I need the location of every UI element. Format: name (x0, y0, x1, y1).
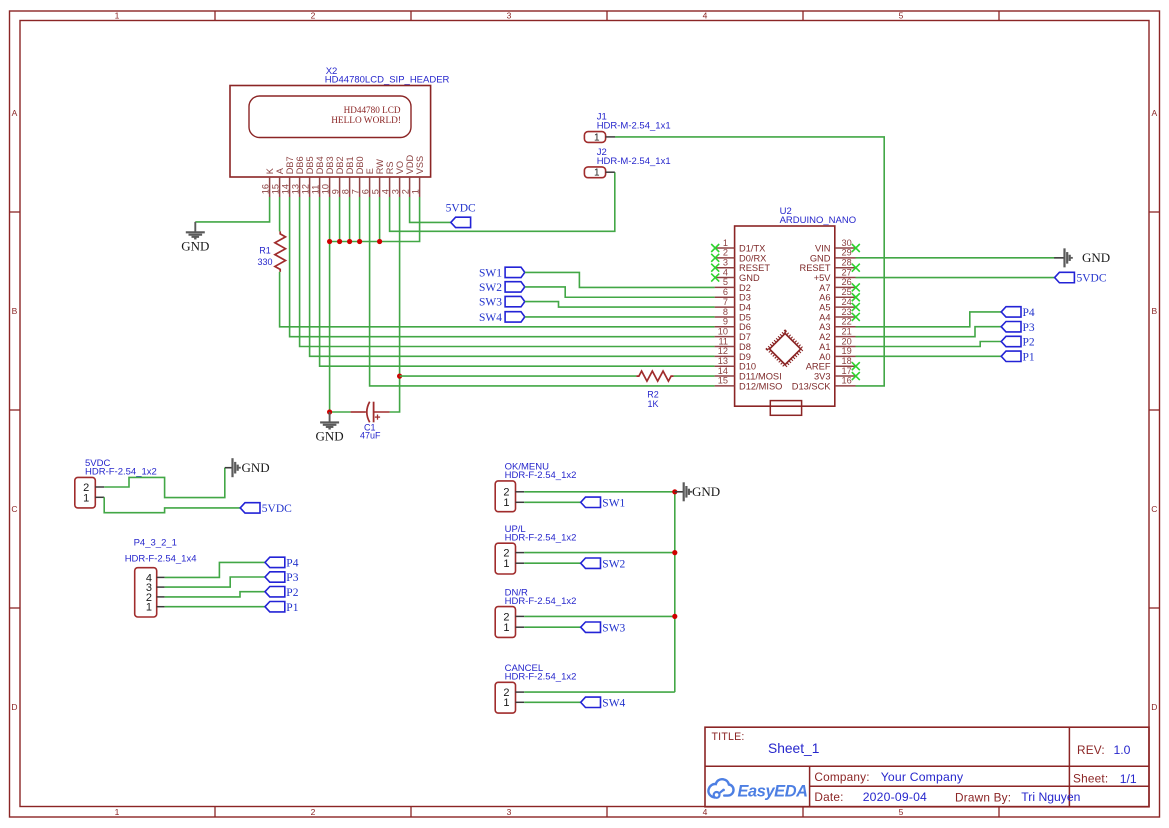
net flag SW2 (bottom) (581, 558, 626, 570)
svg-text:10: 10 (718, 326, 728, 336)
wire: CANCEL pin1 to SW4 flag (524, 701, 581, 703)
svg-text:A5: A5 (819, 303, 830, 313)
svg-text:GND: GND (810, 253, 831, 263)
svg-text:1.0: 1.0 (1114, 743, 1131, 757)
header P4_3_2_1 HDR-F-2.54_1x4 (125, 538, 197, 618)
ground symbol GND (switch rail) (675, 482, 720, 501)
wire: LCD pin11 DB4 to U2 D10 (320, 197, 715, 366)
svg-text:Date:: Date: (814, 790, 843, 804)
svg-text:GND: GND (692, 484, 720, 499)
wire: R2 to U2 D11/MOSI (674, 375, 715, 377)
svg-text:D1/TX: D1/TX (739, 243, 765, 253)
svg-text:Your Company: Your Company (881, 770, 964, 784)
wire: CANCEL pin2 to gnd rail (524, 691, 675, 693)
U2 no-connect marks (711, 244, 860, 380)
svg-text:14: 14 (280, 184, 290, 194)
wire: U2 A1 to P2 flag (856, 342, 1002, 347)
svg-text:2: 2 (311, 807, 316, 817)
svg-text:9: 9 (330, 189, 340, 194)
svg-text:DB5: DB5 (305, 156, 315, 174)
svg-text:13: 13 (290, 184, 300, 194)
net flag P4 (right) (1001, 307, 1035, 319)
svg-text:GND: GND (1082, 250, 1110, 265)
svg-text:AREF: AREF (806, 362, 831, 372)
svg-text:16: 16 (842, 376, 852, 386)
wire: 5VDC header pin1 to 5VDC flag (104, 497, 240, 512)
svg-text:A7: A7 (819, 283, 830, 293)
svg-text:2020-09-04: 2020-09-04 (863, 790, 927, 804)
svg-text:Company:: Company: (814, 770, 869, 784)
svg-text:D11/MOSI: D11/MOSI (739, 371, 782, 381)
wire: LCD pin3 VO down to node (399, 197, 401, 376)
svg-text:HDR-F-2.54_1x4: HDR-F-2.54_1x4 (125, 553, 197, 564)
wire: LCD pin5 RW to gnd bus (379, 197, 381, 242)
svg-text:RW: RW (375, 159, 385, 174)
wire: header pin4 to P4 flag (165, 562, 265, 577)
net flag P1 (bottom) (265, 602, 299, 614)
title block (705, 727, 1149, 807)
wire: LCD pin10 DB3 down to ground junction (329, 197, 331, 412)
svg-text:VDD: VDD (405, 154, 415, 174)
wire: header pin1 to P1 flag (165, 606, 265, 608)
label R2 1K (647, 390, 659, 409)
svg-text:1: 1 (503, 558, 509, 570)
svg-text:DB4: DB4 (315, 156, 325, 174)
wire: LCD pin6 E to U2 D12/MISO (370, 197, 715, 386)
wire: U2 A2 to P3 flag (856, 327, 1002, 337)
svg-text:16: 16 (260, 184, 270, 194)
svg-text:1: 1 (594, 168, 600, 179)
svg-text:21: 21 (842, 326, 852, 336)
svg-text:HDR-F-2.54_1x2: HDR-F-2.54_1x2 (505, 672, 577, 683)
resistor R1 (275, 231, 286, 272)
svg-text:RS: RS (385, 161, 395, 174)
wire: J1 to U2 D13/SCK (615, 137, 884, 386)
connector J2 HDR-M-2.54_1x1 (584, 147, 670, 179)
U2 chip glyph (768, 332, 803, 367)
net flag P2 (bottom) (265, 587, 299, 599)
svg-text:9: 9 (723, 317, 728, 327)
svg-text:D9: D9 (739, 352, 751, 362)
wire: SW2 to U2 D3 (525, 287, 715, 297)
svg-text:28: 28 (842, 258, 852, 268)
net flag P3 (right) (1001, 322, 1035, 334)
net flag P3 (bottom) (265, 572, 299, 584)
svg-text:47uF: 47uF (360, 431, 381, 441)
wire: VO node down to capacitor C1 (390, 376, 400, 412)
svg-text:REV:: REV: (1077, 743, 1105, 757)
svg-text:Tri Nguyen: Tri Nguyen (1021, 790, 1080, 804)
svg-text:23: 23 (842, 307, 852, 317)
net flag SW4 (input) (479, 312, 525, 324)
svg-text:4: 4 (723, 267, 728, 277)
svg-text:HDR-F-2.54_1x2: HDR-F-2.54_1x2 (505, 596, 577, 607)
net flag P2 (right) (1001, 336, 1035, 348)
wire: header pin2 to P2 flag (165, 592, 265, 597)
capacitor C1 47uF (351, 402, 390, 441)
wire: U2 GND pin29 to ground (856, 257, 1055, 259)
svg-text:SW3: SW3 (602, 622, 625, 634)
svg-text:30: 30 (842, 238, 852, 248)
svg-text:24: 24 (842, 297, 852, 307)
svg-text:EasyEDA: EasyEDA (738, 782, 808, 800)
svg-text:11: 11 (718, 336, 728, 346)
svg-text:P4: P4 (1023, 307, 1035, 319)
svg-text:A1: A1 (819, 342, 830, 352)
svg-text:SW4: SW4 (479, 312, 502, 324)
svg-text:P2: P2 (286, 587, 298, 599)
svg-text:D6: D6 (739, 322, 751, 332)
svg-text:DB6: DB6 (295, 156, 305, 174)
header 5VDC HDR-F-2.54_1x2 (75, 458, 157, 508)
wire: DN/R pin2 to gnd rail (524, 615, 675, 617)
svg-text:P3: P3 (1023, 322, 1035, 334)
svg-text:D8: D8 (739, 342, 751, 352)
svg-text:DB7: DB7 (285, 156, 295, 174)
svg-text:10: 10 (320, 184, 330, 194)
svg-text:SW1: SW1 (479, 268, 502, 280)
svg-text:13: 13 (718, 356, 728, 366)
svg-text:330: 330 (257, 257, 272, 267)
svg-text:DB1: DB1 (345, 156, 355, 174)
svg-text:VIN: VIN (815, 243, 831, 253)
ground symbol GND (bottom-left) (225, 458, 270, 477)
net flag SW2 (input) (479, 282, 525, 294)
svg-text:VSS: VSS (415, 156, 425, 174)
svg-text:4: 4 (380, 189, 390, 194)
wire: LCD pin16 K to GND (195, 197, 269, 222)
wire: 5VDC header pin2 to ground (104, 468, 225, 498)
wire: UP/L pin1 to SW2 flag (524, 562, 581, 564)
wire: U2 A0 to P1 flag (856, 355, 1002, 357)
power flag 5VDC (bottom-left) (240, 503, 292, 515)
svg-text:2: 2 (723, 248, 728, 258)
svg-text:B: B (12, 306, 18, 316)
power flag 5VDC (right) (1055, 272, 1107, 284)
svg-text:15: 15 (270, 184, 280, 194)
svg-text:A3: A3 (819, 322, 830, 332)
svg-text:5VDC: 5VDC (1077, 273, 1107, 285)
svg-text:R1: R1 (259, 246, 271, 256)
svg-text:1: 1 (503, 497, 509, 509)
svg-text:DB3: DB3 (325, 156, 335, 174)
svg-text:5VDC: 5VDC (262, 503, 292, 515)
MCU module U2 ARDUINO_NANO body (735, 206, 857, 406)
U2 left pins 1-15 (715, 238, 783, 391)
wire: U2 A3 to P4 flag (856, 312, 1002, 327)
svg-text:D5: D5 (739, 312, 751, 322)
wire: LCD pin15 A to resistor R1 (279, 197, 281, 231)
svg-text:RESET: RESET (800, 263, 831, 273)
svg-text:DB0: DB0 (355, 156, 365, 174)
junction dots on gnd bus (327, 239, 382, 244)
svg-text:A2: A2 (819, 332, 830, 342)
power flag 5VDC (near LCD) (446, 203, 476, 228)
X2 pins 16..1 with names K A DB7 DB6 DB5 DB4 DB3 DB2 DB1 DB0 E RW RS VO VDD VSS (260, 154, 425, 197)
svg-text:P4: P4 (286, 558, 298, 570)
wire: LCD pin9 DB2 to gnd bus (339, 197, 341, 242)
header CANCEL HDR-F-2.54_1x2 (495, 663, 576, 713)
wire: LCD pin12 DB5 to U2 D9 (310, 197, 715, 356)
wire: VO node to resistor R2 (400, 375, 637, 377)
svg-text:P4_3_2_1: P4_3_2_1 (134, 538, 177, 549)
svg-text:2: 2 (400, 189, 410, 194)
svg-text:26: 26 (842, 277, 852, 287)
svg-text:D2: D2 (739, 283, 751, 293)
svg-text:1: 1 (410, 189, 420, 194)
U2 right pins 30-16 (792, 238, 856, 391)
svg-text:1/1: 1/1 (1120, 772, 1137, 786)
svg-text:D: D (11, 702, 17, 712)
svg-text:7: 7 (350, 189, 360, 194)
svg-text:17: 17 (842, 366, 852, 376)
svg-text:HDR-M-2.54_1x1: HDR-M-2.54_1x1 (597, 156, 671, 167)
wire: LCD pin7 DB0 to gnd bus (359, 197, 361, 242)
svg-text:HD44780LCD_SIP_HEADER: HD44780LCD_SIP_HEADER (325, 75, 450, 86)
svg-text:SW2: SW2 (479, 282, 502, 294)
svg-text:3: 3 (507, 807, 512, 817)
net flag P1 (right) (1001, 351, 1035, 363)
svg-text:GND: GND (242, 460, 270, 475)
net flag P4 (bottom) (265, 557, 299, 569)
svg-text:3V3: 3V3 (814, 371, 831, 381)
svg-text:HD44780 LCD: HD44780 LCD (344, 105, 401, 115)
svg-text:P3: P3 (286, 572, 298, 584)
svg-text:K: K (265, 167, 275, 174)
wire: LCD pin13 DB6 to U2 D8 (300, 197, 715, 347)
svg-text:6: 6 (723, 287, 728, 297)
svg-text:D13/SCK: D13/SCK (792, 381, 832, 391)
svg-text:20: 20 (842, 336, 852, 346)
wire: gnd bus and LCD pin1 VSS (330, 197, 420, 242)
svg-text:3: 3 (723, 258, 728, 268)
net flag SW3 (input) (479, 296, 525, 308)
resistor R2 (636, 371, 673, 381)
net flag SW4 (bottom) (581, 697, 626, 709)
header DN/R HDR-F-2.54_1x2 (495, 587, 576, 637)
svg-text:15: 15 (718, 376, 728, 386)
wire: LCD pin8 DB1 to gnd bus (349, 197, 351, 242)
svg-text:P1: P1 (286, 602, 298, 614)
label R1 330 (257, 246, 272, 267)
svg-text:12: 12 (718, 346, 728, 356)
svg-text:12: 12 (300, 184, 310, 194)
svg-text:HDR-F-2.54_1x2: HDR-F-2.54_1x2 (85, 466, 157, 477)
svg-text:D: D (1151, 702, 1157, 712)
svg-text:Drawn By:: Drawn By: (955, 791, 1011, 805)
svg-text:DB2: DB2 (335, 156, 345, 174)
svg-text:B: B (1151, 306, 1157, 316)
svg-text:P2: P2 (1023, 337, 1035, 349)
wire: SW4 to U2 D5 (525, 316, 715, 318)
svg-text:6: 6 (360, 189, 370, 194)
svg-text:C: C (11, 504, 17, 514)
wire: U2 +5V pin27 to 5VDC flag (856, 277, 1055, 279)
svg-text:D7: D7 (739, 332, 751, 342)
svg-text:27: 27 (842, 267, 852, 277)
svg-text:2: 2 (311, 11, 316, 21)
svg-text:GND: GND (181, 239, 209, 254)
junction dot at ground/C1 (327, 409, 332, 414)
wire: DN/R pin1 to SW3 flag (524, 626, 581, 628)
svg-text:C: C (1151, 504, 1157, 514)
svg-text:A4: A4 (819, 312, 830, 322)
svg-text:1: 1 (503, 622, 509, 634)
svg-text:VO: VO (395, 161, 405, 174)
svg-text:A: A (1151, 108, 1157, 118)
svg-text:8: 8 (723, 307, 728, 317)
svg-text:P1: P1 (1023, 351, 1035, 363)
net flag SW1 (bottom) (581, 497, 626, 509)
svg-text:SW4: SW4 (602, 697, 625, 709)
svg-text:1: 1 (115, 11, 120, 21)
svg-text:4: 4 (703, 11, 708, 21)
net flag SW3 (bottom) (581, 622, 626, 634)
wire: R1 to U2 D6 (280, 272, 715, 327)
svg-text:SW3: SW3 (479, 297, 502, 309)
svg-text:25: 25 (842, 287, 852, 297)
svg-text:Sheet:: Sheet: (1073, 772, 1108, 786)
svg-text:3: 3 (390, 189, 400, 194)
wire: SW3 to U2 D4 (525, 302, 715, 308)
wire: LCD pin2 VDD to 5VDC flag (410, 197, 451, 222)
svg-text:4: 4 (703, 807, 708, 817)
svg-text:22: 22 (842, 317, 852, 327)
svg-text:D12/MISO: D12/MISO (739, 381, 782, 391)
svg-text:GND: GND (739, 273, 760, 283)
net flag SW1 (input) (479, 267, 525, 279)
junction dot VO/R2/C1 (397, 374, 402, 379)
svg-text:29: 29 (842, 248, 852, 258)
svg-text:5: 5 (899, 807, 904, 817)
svg-text:E: E (365, 168, 375, 174)
svg-text:D3: D3 (739, 293, 751, 303)
svg-text:HDR-M-2.54_1x1: HDR-M-2.54_1x1 (597, 120, 671, 131)
ground symbol GND (below C1 net) (316, 412, 344, 444)
svg-text:D10: D10 (739, 362, 756, 372)
svg-text:1K: 1K (647, 399, 658, 409)
svg-text:HDR-F-2.54_1x2: HDR-F-2.54_1x2 (505, 470, 577, 481)
svg-text:D4: D4 (739, 303, 751, 313)
svg-text:+5V: +5V (814, 273, 832, 283)
EasyEDA logo (708, 779, 807, 800)
svg-text:5: 5 (899, 11, 904, 21)
svg-text:1: 1 (115, 807, 120, 817)
ground symbol GND (left) (181, 222, 209, 254)
wire: C1 left lead to ground junction (330, 411, 351, 413)
svg-text:5: 5 (370, 189, 380, 194)
svg-text:ARDUINO_NANO: ARDUINO_NANO (780, 215, 857, 226)
wire: OK/MENU pin2 to gnd rail (524, 491, 675, 493)
svg-text:5VDC: 5VDC (446, 203, 476, 215)
svg-text:11: 11 (310, 185, 320, 195)
svg-text:A0: A0 (819, 352, 830, 362)
svg-text:1: 1 (594, 132, 600, 143)
svg-text:19: 19 (842, 346, 852, 356)
svg-text:RESET: RESET (739, 263, 770, 273)
svg-text:3: 3 (507, 11, 512, 21)
svg-text:1: 1 (146, 602, 152, 614)
ground symbol GND (right) (1054, 248, 1110, 267)
svg-text:HDR-F-2.54_1x2: HDR-F-2.54_1x2 (505, 532, 577, 543)
svg-text:5: 5 (723, 277, 728, 287)
svg-text:SW1: SW1 (602, 497, 625, 509)
svg-text:TITLE:: TITLE: (712, 731, 745, 743)
svg-text:GND: GND (316, 429, 344, 444)
svg-text:18: 18 (842, 356, 852, 366)
wire: SW1 to U2 D2 (525, 272, 715, 287)
svg-text:D0/RX: D0/RX (739, 253, 766, 263)
wire: LCD pin14 DB7 to U2 D7 (290, 197, 715, 337)
svg-text:A: A (12, 108, 18, 118)
svg-text:14: 14 (718, 366, 728, 376)
svg-text:HELLO WORLD!: HELLO WORLD! (331, 116, 401, 126)
svg-text:1: 1 (723, 238, 728, 248)
header UP/L HDR-F-2.54_1x2 (495, 524, 576, 574)
svg-text:SW2: SW2 (602, 558, 625, 570)
svg-text:Sheet_1: Sheet_1 (768, 741, 819, 756)
wire: gnd rail vertical (674, 492, 676, 692)
junction dots on gnd rail (672, 489, 677, 619)
wire: UP/L pin2 to gnd rail (524, 552, 675, 554)
svg-text:1: 1 (83, 492, 89, 504)
U2 usb connector (770, 401, 801, 416)
svg-text:7: 7 (723, 297, 728, 307)
wire: header pin3 to P3 flag (165, 577, 265, 587)
wire: OK/MENU pin1 to SW1 flag (524, 501, 581, 503)
LCD module X2 HD44780LCD_SIP_HEADER (230, 66, 450, 177)
wire: LCD pin4 RS to J2 (390, 172, 615, 231)
connector J1 HDR-M-2.54_1x1 (584, 112, 670, 144)
header OK/MENU HDR-F-2.54_1x2 (495, 462, 576, 512)
svg-text:A6: A6 (819, 293, 830, 303)
svg-text:8: 8 (340, 189, 350, 194)
svg-text:A: A (275, 167, 285, 174)
svg-text:1: 1 (503, 697, 509, 709)
